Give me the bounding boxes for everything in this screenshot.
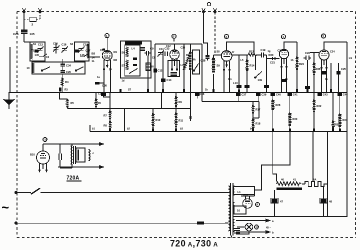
svg-text:C9: C9	[150, 47, 154, 51]
svg-text:R6: R6	[98, 101, 102, 105]
svg-text:R18: R18	[256, 122, 261, 126]
svg-text:C12: C12	[158, 69, 163, 73]
svg-text:146: 146	[80, 53, 85, 57]
svg-text:A: A	[256, 204, 258, 207]
svg-text:C13: C13	[38, 43, 43, 47]
svg-text:R10: R10	[156, 118, 161, 122]
svg-text:C39: C39	[262, 92, 267, 96]
svg-text:C17: C17	[86, 49, 91, 53]
svg-text:C21: C21	[270, 61, 275, 65]
svg-text:B12: B12	[244, 194, 249, 197]
svg-text:R20: R20	[269, 53, 274, 57]
svg-text:L1: L1	[238, 190, 242, 194]
svg-text:C35: C35	[181, 47, 186, 50]
svg-text:R4: R4	[65, 80, 69, 84]
svg-text:149: 149	[258, 78, 263, 82]
svg-text:14: 14	[92, 55, 95, 59]
svg-text:L4: L4	[132, 47, 136, 51]
svg-text:S9: S9	[217, 64, 221, 68]
svg-text:R24: R24	[299, 62, 304, 66]
svg-text:C44: C44	[343, 92, 348, 96]
svg-text:C22: C22	[278, 50, 283, 53]
svg-text:1f: 1f	[232, 51, 234, 54]
svg-text:R8: R8	[104, 124, 108, 128]
svg-text:L13: L13	[233, 81, 238, 85]
svg-text:R12: R12	[249, 50, 254, 54]
svg-text:C14: C14	[167, 78, 172, 82]
svg-text:R5: R5	[71, 101, 75, 105]
svg-text:C34: C34	[66, 64, 71, 68]
svg-text:10: 10	[27, 66, 30, 70]
svg-text:B10: B10	[30, 153, 35, 157]
svg-text:R34: R34	[343, 118, 348, 122]
svg-text:C30: C30	[102, 84, 107, 88]
svg-text:R32: R32	[317, 104, 322, 108]
svg-text:R14: R14	[250, 64, 255, 68]
svg-text:S7: S7	[122, 64, 126, 68]
svg-text:4A: 4A	[313, 177, 316, 181]
svg-text:C12: C12	[166, 45, 171, 48]
svg-text:C19: C19	[83, 43, 88, 47]
svg-text:145: 145	[35, 53, 40, 57]
svg-text:1L: 1L	[92, 59, 95, 63]
svg-text:C16: C16	[62, 43, 67, 47]
svg-text:C26: C26	[13, 32, 19, 36]
svg-text:R30: R30	[293, 117, 298, 121]
svg-text:45 ~: 45 ~	[266, 227, 271, 230]
svg-text:R17: R17	[256, 108, 261, 112]
svg-text:~: ~	[2, 200, 10, 215]
svg-text:R9: R9	[179, 100, 183, 104]
svg-text:S6: S6	[122, 51, 126, 55]
svg-text:C40: C40	[276, 92, 281, 96]
svg-text:M1: M1	[114, 51, 118, 54]
svg-text:C43: C43	[323, 92, 328, 96]
svg-text:C20: C20	[66, 70, 71, 74]
svg-text:C38: C38	[201, 59, 206, 63]
svg-text:R7: R7	[104, 114, 108, 118]
svg-text:1d: 1d	[122, 80, 125, 83]
svg-text:1n: 1n	[285, 78, 288, 81]
svg-text:R11: R11	[179, 119, 184, 123]
svg-text:C10: C10	[31, 49, 36, 53]
svg-text:C25: C25	[341, 67, 346, 71]
svg-text:L9: L9	[349, 56, 353, 60]
svg-text:L7: L7	[181, 63, 185, 67]
svg-text:C36: C36	[200, 92, 205, 96]
svg-text:M2: M2	[114, 59, 118, 62]
svg-text:10: 10	[237, 209, 240, 213]
svg-text:720 A,730 A: 720 A,730 A	[170, 239, 218, 249]
svg-text:50: 50	[151, 65, 154, 69]
svg-text:135: 135	[30, 32, 35, 36]
svg-text:C24: C24	[330, 51, 335, 54]
svg-text:1h: 1h	[291, 59, 294, 62]
svg-text:1g: 1g	[268, 50, 271, 53]
svg-text:R28: R28	[276, 103, 281, 107]
svg-text:C11: C11	[159, 47, 164, 51]
svg-text:B8: B8	[92, 52, 96, 56]
svg-text:C23: C23	[305, 51, 310, 55]
svg-text:1p: 1p	[325, 78, 328, 81]
svg-text:C15: C15	[53, 42, 58, 46]
svg-text:C19: C19	[261, 48, 266, 52]
svg-text:R26: R26	[316, 67, 321, 71]
svg-text:C31: C31	[98, 92, 103, 96]
svg-text:C41: C41	[293, 92, 298, 96]
svg-text:4A: 4A	[193, 59, 196, 62]
svg-text:C37: C37	[242, 92, 247, 96]
